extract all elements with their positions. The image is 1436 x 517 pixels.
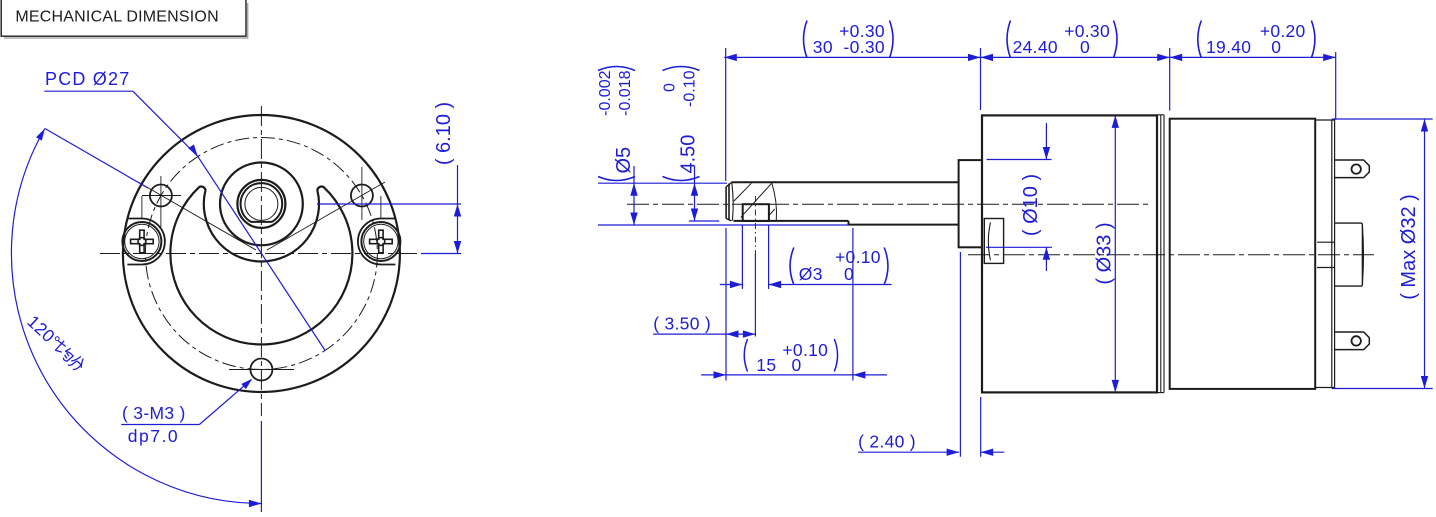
rear boss end curve <box>1362 226 1363 284</box>
svg-text:( Ø33 ): ( Ø33 ) <box>1093 222 1115 284</box>
outer circle <box>123 115 400 392</box>
120deg label <box>23 311 89 374</box>
svg-text:19.40: 19.40 <box>1206 37 1251 57</box>
PCD leader line <box>133 91 198 156</box>
svg-text:15: 15 <box>756 355 776 375</box>
dim text 19.40 +0.20/0 <box>1198 21 1315 58</box>
ext line motor end <box>1335 52 1337 120</box>
svg-text:-0.018: -0.018 <box>617 70 634 115</box>
shaft top line <box>732 181 959 183</box>
shaft chamfer circle <box>245 187 278 220</box>
hole centerline horizontal bottom <box>229 369 294 371</box>
svg-text:0: 0 <box>1271 37 1281 57</box>
motor end cap band <box>1315 120 1334 388</box>
screw left head <box>122 222 161 261</box>
120deg ray bottom <box>260 421 262 512</box>
hole axis ext <box>754 254 756 337</box>
dim line dia5 <box>633 166 635 225</box>
3-M3 leader <box>199 380 250 424</box>
hole centerline horizontal top-left <box>142 195 181 197</box>
shaft flat step <box>848 221 850 225</box>
bearing rim circle <box>237 180 285 228</box>
dim line dia3 <box>720 284 892 286</box>
radial centerline right 30deg <box>267 182 385 250</box>
svg-text:PCD Ø27: PCD Ø27 <box>45 69 130 89</box>
screw right vertical centerline <box>380 196 382 218</box>
svg-text:0: 0 <box>1080 37 1090 57</box>
svg-text:4.50: 4.50 <box>678 135 700 174</box>
PCD leader underline <box>44 90 133 92</box>
dia5 text <box>597 67 635 181</box>
flat hatch line 3 <box>768 209 775 216</box>
svg-text:dp7.0: dp7.0 <box>128 426 179 446</box>
front boss <box>959 160 982 247</box>
svg-text:( 3-M3 ): ( 3-M3 ) <box>122 403 186 423</box>
dim line 24.40 <box>981 56 1170 58</box>
screw left vertical centerline <box>141 196 143 218</box>
title box <box>1 0 248 38</box>
shaft tip chamfer arc <box>732 183 733 221</box>
dim line 30 <box>724 56 980 58</box>
120deg ray top <box>45 129 148 189</box>
svg-text:+0.20: +0.20 <box>1260 21 1306 41</box>
svg-text:Ø5: Ø5 <box>613 147 635 174</box>
terminal top <box>1335 160 1370 178</box>
120deg arrow bottom <box>249 500 262 507</box>
dim text 24.40 +0.30/0 <box>1007 21 1117 58</box>
horizontal centerline <box>100 253 419 255</box>
flat runout arc <box>772 183 777 220</box>
ext lines 2.40 <box>960 252 980 457</box>
svg-text:( Ø10 ): ( Ø10 ) <box>1020 174 1042 236</box>
face plate detail rect <box>984 219 1003 264</box>
screw right pocket <box>358 219 396 265</box>
svg-text:( 3.50 ): ( 3.50 ) <box>653 313 711 333</box>
shaft axis centerline <box>627 203 1152 205</box>
screw right head <box>361 222 400 261</box>
glyph jun <box>52 338 77 363</box>
hole centerline vertical top-right <box>361 167 363 220</box>
PCD arrowhead <box>188 144 197 156</box>
motor body <box>1170 119 1316 389</box>
svg-text:( Max Ø32 ): ( Max Ø32 ) <box>1398 194 1420 300</box>
motor axis centerline <box>968 254 1374 256</box>
ext line shaft tip <box>725 48 727 181</box>
spacer plate lines <box>1157 115 1164 393</box>
svg-text:24.40: 24.40 <box>1013 37 1058 57</box>
shaft tip chamfer top <box>726 183 731 187</box>
cap step lines at rear boss <box>1317 242 1335 267</box>
boss circle around shaft <box>220 163 303 246</box>
screw left phillips cross <box>131 230 154 253</box>
cross hole axis <box>754 196 756 254</box>
M3 hole top-left <box>150 185 172 207</box>
dia3 text <box>790 247 888 284</box>
crescent recess <box>170 187 352 345</box>
120deg arrow top <box>36 129 45 141</box>
shaft tip chamfer bottom <box>726 219 731 221</box>
flat hatch line 2 <box>741 183 772 217</box>
shaft bottom line <box>849 224 959 226</box>
ext line shaft top <box>598 182 727 184</box>
svg-text:MECHANICAL DIMENSION: MECHANICAL DIMENSION <box>15 9 218 26</box>
shaft tip face <box>725 187 727 219</box>
PCD bolt circle (dash-dot) <box>145 138 377 370</box>
svg-text:( 2.40 ): ( 2.40 ) <box>858 431 916 451</box>
svg-text:-0.002: -0.002 <box>597 70 614 115</box>
glyph fen <box>68 354 87 373</box>
4.50 text <box>662 67 700 181</box>
svg-text:-0.30: -0.30 <box>844 37 885 57</box>
flat hatch line 1 <box>734 183 751 201</box>
svg-text:+0.10: +0.10 <box>835 247 881 267</box>
15 text <box>744 339 837 375</box>
dim line 4.50 <box>694 166 696 221</box>
svg-text:Ø3: Ø3 <box>799 264 823 284</box>
radial centerline left 30deg <box>138 182 256 250</box>
face plate lens arc <box>988 222 990 260</box>
screw left pocket <box>127 219 164 265</box>
3-M3 arrowhead <box>241 379 252 390</box>
ext line gearbox face <box>980 48 982 110</box>
3-M3 leader underline <box>121 424 199 426</box>
terminal bottom <box>1335 332 1370 350</box>
ext line motor face <box>1169 48 1171 111</box>
rear bearing boss <box>1335 223 1363 286</box>
dim line <box>457 165 459 254</box>
PCD diameter line <box>198 156 325 350</box>
gearbox body <box>982 115 1157 392</box>
ext line shaft bottom <box>598 224 849 226</box>
M3 hole bottom <box>250 359 272 381</box>
cross hole in shaft <box>743 204 769 221</box>
dim text 30 +0.30/-0.30 <box>804 21 894 58</box>
svg-text:0: 0 <box>662 83 679 92</box>
vertical centerline <box>260 106 262 416</box>
ext line face center <box>421 253 461 255</box>
arrows top chain <box>724 54 737 61</box>
terminal bottom hole <box>1352 336 1361 345</box>
svg-text:-0.10: -0.10 <box>682 70 699 107</box>
120deg angular dimension arc <box>11 129 261 504</box>
arrows <box>454 204 461 217</box>
screw right phillips cross <box>370 230 393 253</box>
shaft circle with D-flat <box>241 183 283 222</box>
svg-text:0: 0 <box>791 355 801 375</box>
svg-text:+0.10: +0.10 <box>782 340 828 360</box>
M3 hole top-right <box>351 185 373 207</box>
ext lines hole <box>742 226 768 290</box>
svg-text:( 6.10 ): ( 6.10 ) <box>433 102 455 165</box>
ext line shaft axis <box>317 203 461 205</box>
dim line 19.40 <box>1170 56 1336 58</box>
shaft tip lower ext line <box>725 228 727 381</box>
svg-text:30: 30 <box>813 37 833 57</box>
hole centerline vertical top-left <box>160 176 162 227</box>
ext line flat <box>689 220 719 222</box>
terminal top hole <box>1352 164 1361 173</box>
ext line flat end <box>852 228 854 381</box>
shaft flat line <box>734 220 849 222</box>
